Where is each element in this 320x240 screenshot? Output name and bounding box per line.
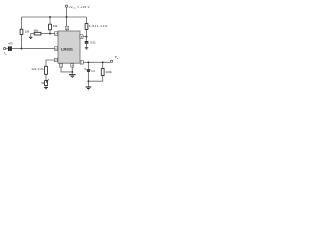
svg-text:10k: 10k bbox=[25, 30, 30, 34]
ground under C2 bbox=[85, 48, 88, 49]
wire pin 8 stub bbox=[66, 30, 68, 31]
svg-text:1.0: 1.0 bbox=[91, 69, 95, 73]
junction node pin6-input bbox=[21, 48, 23, 50]
wire pin 5 to node bbox=[83, 36, 87, 38]
junction node pin1 cap bbox=[87, 61, 89, 63]
pin 2 box bbox=[55, 58, 58, 62]
plus mark of C3 bbox=[84, 68, 85, 69]
pin 4 box bbox=[71, 64, 74, 68]
wire 100k branch bbox=[102, 62, 104, 68]
terminal fin input bbox=[4, 48, 6, 50]
terminal Vo output bbox=[111, 60, 113, 62]
resistor R2 10k (middle) bbox=[49, 24, 52, 30]
junction node pin7 bbox=[49, 33, 51, 35]
resistor R3 68k (horizontal) bbox=[34, 32, 41, 35]
svg-text:12k ±1%: 12k ±1% bbox=[31, 67, 44, 71]
capacitor C3 1u bbox=[87, 70, 91, 71]
resistor R7 100k bbox=[101, 69, 104, 76]
wire middle branch lower to pin 7 bbox=[50, 30, 55, 34]
pin 6 box bbox=[55, 47, 58, 51]
ground under 5k bbox=[44, 87, 48, 88]
wire left branch upper bbox=[21, 17, 23, 29]
svg-text:68k: 68k bbox=[34, 29, 39, 33]
wire 68k left lead to ground bbox=[31, 34, 34, 37]
pin 1 box bbox=[80, 61, 83, 65]
wire Vcc drop to pin 8 bbox=[66, 7, 68, 26]
wire pin1 node down through 1u cap bbox=[87, 62, 89, 69]
resistor R1 10k (left) bbox=[20, 29, 23, 34]
capacitor C2 0.01u bbox=[85, 42, 89, 43]
terminal Vcc bbox=[65, 5, 67, 7]
wire 68k right lead bbox=[41, 33, 50, 35]
capacitor C1 470 bbox=[9, 46, 11, 51]
ground under pins 3-4 bbox=[69, 75, 76, 78]
pin 7 box bbox=[55, 32, 58, 36]
svg-text:0.01: 0.01 bbox=[90, 41, 96, 45]
wire middle branch upper bbox=[49, 17, 51, 24]
op-amp U1 LM331 body bbox=[58, 31, 80, 63]
wire pin 1 to output terminal bbox=[83, 61, 110, 63]
svg-text:+VCC = +15 V: +VCC = +15 V bbox=[68, 5, 90, 9]
junction node 100k top bbox=[102, 61, 104, 63]
potentiometer R6 5k bbox=[45, 81, 48, 86]
wire pin 4 down bbox=[71, 67, 73, 74]
resistor R4 6.81k bbox=[85, 24, 88, 30]
wire pin 2 to 12k bbox=[46, 60, 55, 66]
wire pin 3 down bbox=[61, 67, 72, 72]
wire right branch Rt top bbox=[86, 17, 88, 24]
junction node pins3-4 bbox=[71, 71, 73, 73]
wire input to pin 6 bbox=[12, 48, 54, 50]
wire Ct bottom to ground bbox=[86, 44, 88, 48]
junction node rail-Vcc bbox=[66, 16, 68, 18]
junction node pin5 RC bbox=[86, 36, 88, 38]
resistor R5 12k bbox=[45, 66, 48, 74]
svg-text:LM331: LM331 bbox=[61, 47, 73, 51]
wire left branch lower bbox=[21, 35, 23, 49]
pin 3 box bbox=[60, 64, 63, 68]
wire input terminal to cap bbox=[6, 48, 8, 50]
svg-text:6.81k ±1%: 6.81k ±1% bbox=[89, 24, 108, 28]
svg-text:10k: 10k bbox=[53, 24, 58, 28]
pin 8 box bbox=[66, 26, 69, 30]
junction node cap-100k bottom bbox=[87, 80, 89, 82]
svg-text:100k: 100k bbox=[105, 70, 112, 74]
wire Rt bottom to pin5 node bbox=[86, 30, 88, 42]
wire 5k to ground bbox=[45, 86, 47, 87]
wire top rail bbox=[22, 16, 87, 18]
ground bottom right bbox=[86, 87, 92, 90]
ground under 68k bbox=[29, 37, 32, 38]
wire 12k to 5k bbox=[45, 74, 47, 80]
svg-text:470: 470 bbox=[8, 41, 13, 45]
pin 5 box bbox=[80, 35, 83, 39]
pot arrow bbox=[46, 79, 49, 82]
junction node rail-left10k bbox=[49, 16, 51, 18]
